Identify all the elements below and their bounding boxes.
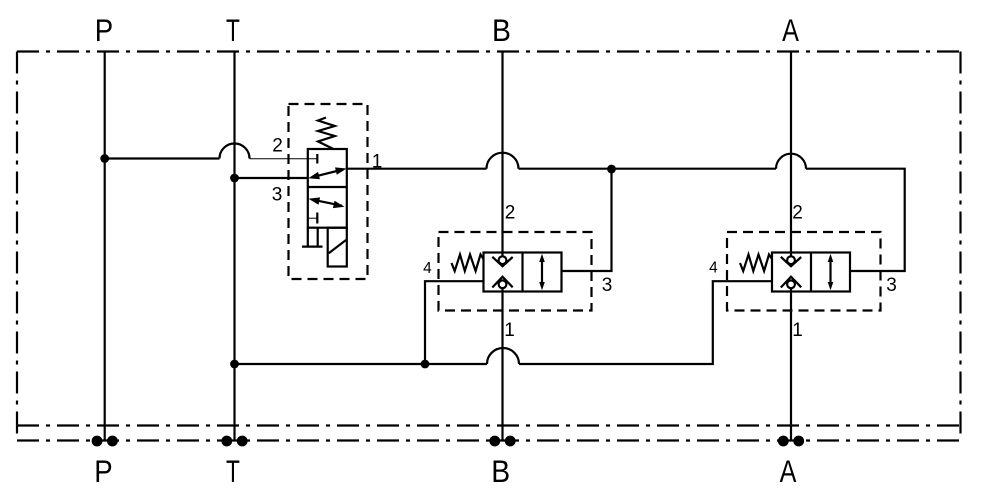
check block CB1 body divider bbox=[521, 253, 523, 292]
svg-text:B: B bbox=[491, 453, 510, 489]
wire crossover hump over T bbox=[220, 144, 250, 159]
junction T bottom wire bbox=[230, 360, 239, 369]
valve V1 pos1 flow path shaft bbox=[312, 170, 343, 178]
junction P top wire bbox=[100, 154, 109, 163]
check block CB1 bottom poppet seat bbox=[492, 277, 512, 288]
valve V1 pos1 arrowhead left bbox=[308, 172, 320, 179]
manifold boundary right edge bbox=[959, 52, 961, 441]
svg-text:2: 2 bbox=[792, 203, 803, 224]
wire left block pilot riser bbox=[425, 281, 484, 364]
wire T line vertical bbox=[233, 52, 235, 442]
svg-text:2: 2 bbox=[505, 203, 516, 224]
valve V1 drain bracket right prong bbox=[317, 228, 319, 246]
check block CB1 flow arrow shaft bbox=[541, 259, 543, 286]
valve V1 pos2 blocked line bbox=[308, 217, 317, 219]
wire crossover hump over B bbox=[487, 153, 519, 169]
svg-text:T: T bbox=[226, 12, 240, 48]
manifold boundary top edge bbox=[17, 50, 961, 52]
manifold boundary bottom inner edge bbox=[17, 424, 961, 426]
check block CB2 body divider bbox=[810, 253, 812, 292]
wire valve port 1 run bbox=[347, 168, 487, 170]
port P bottom terminal dots bbox=[92, 436, 103, 447]
svg-text:2: 2 bbox=[272, 136, 283, 157]
check block CB2 flow arrowhead up bbox=[828, 254, 834, 262]
manifold boundary left edge bbox=[16, 52, 18, 441]
port T bottom terminal dots bbox=[221, 436, 232, 447]
wire port 1 run continues bbox=[519, 168, 777, 170]
port A bottom terminal dots bbox=[778, 436, 789, 447]
valve V1 pos2 block bar bbox=[316, 213, 318, 224]
check block CB1 body bbox=[484, 253, 562, 292]
svg-text:P: P bbox=[94, 453, 112, 489]
svg-text:3: 3 bbox=[886, 275, 897, 296]
svg-text:A: A bbox=[780, 453, 797, 489]
valve V1 pos2 flow path shaft bbox=[312, 200, 342, 206]
valve V1 pos2 arrowhead left bbox=[309, 197, 321, 204]
wire B line vertical upper bbox=[501, 52, 503, 257]
manifold boundary bottom outer edge bbox=[17, 439, 961, 441]
junction pilot riser bottom wire bbox=[421, 360, 430, 369]
wire B line vertical lower bbox=[501, 288, 503, 441]
wire crossover hump over A bbox=[776, 154, 806, 169]
valve V1 solenoid diagonal bbox=[329, 240, 346, 253]
check block CB2 bottom poppet ball bbox=[787, 280, 795, 288]
check block CB1 flow arrowhead up bbox=[539, 254, 545, 262]
valve V1 port 2 block bar bbox=[316, 154, 318, 164]
wire port 1 run to right corner bbox=[806, 169, 905, 271]
check block CB2 spring bbox=[740, 255, 772, 272]
check block CB2 flow arrowhead down bbox=[828, 282, 834, 290]
check block CB2 body bbox=[772, 253, 850, 292]
wire port 2 thin segment bbox=[250, 158, 318, 160]
junction port1 run and CB1 port 3 bbox=[607, 165, 616, 174]
svg-text:3: 3 bbox=[272, 185, 283, 206]
check block CB1 enclosure bbox=[439, 232, 592, 311]
svg-text:1: 1 bbox=[792, 320, 803, 341]
wire left block port 3 bbox=[562, 170, 612, 271]
svg-text:1: 1 bbox=[504, 320, 515, 341]
svg-text:P: P bbox=[95, 12, 113, 48]
svg-text:B: B bbox=[492, 12, 511, 48]
svg-text:1: 1 bbox=[372, 152, 383, 173]
check block CB1 spring bbox=[452, 255, 484, 272]
check block CB2 flow arrow shaft bbox=[829, 259, 831, 286]
valve V1 drain bracket foot bbox=[302, 246, 323, 248]
valve V1 enclosure bbox=[289, 104, 368, 279]
check block CB2 top poppet seat bbox=[781, 257, 801, 266]
wire A line vertical lower bbox=[790, 288, 792, 441]
check block CB2 bottom poppet seat bbox=[781, 277, 801, 288]
check block CB1 bottom poppet ball bbox=[499, 280, 507, 288]
valve V1 body bbox=[308, 149, 347, 228]
wire crossover hump over B bottom bbox=[487, 348, 519, 364]
check block CB1 top poppet ball bbox=[499, 256, 507, 264]
wire P line vertical bbox=[104, 52, 106, 442]
valve V1 drain bracket left prong bbox=[307, 228, 309, 246]
check block CB2 top poppet ball bbox=[787, 256, 795, 264]
valve V1 spring bbox=[318, 118, 335, 149]
valve V1 pos1 arrowhead right bbox=[335, 167, 347, 174]
valve V1 position divider bbox=[308, 186, 347, 188]
junction T port 3 wire bbox=[230, 174, 239, 183]
svg-text:T: T bbox=[226, 453, 240, 489]
svg-text:3: 3 bbox=[602, 275, 613, 296]
check block CB1 top poppet seat bbox=[492, 257, 512, 266]
svg-text:A: A bbox=[782, 12, 799, 48]
check block CB1 flow arrowhead down bbox=[539, 282, 545, 290]
svg-text:4: 4 bbox=[709, 260, 718, 277]
valve V1 solenoid box bbox=[328, 228, 347, 267]
valve V1 pos2 arrowhead right bbox=[333, 201, 345, 208]
wire A line vertical upper bbox=[790, 52, 792, 257]
wire T to valve port 3 bbox=[235, 177, 308, 179]
svg-text:4: 4 bbox=[423, 260, 432, 277]
check block CB2 enclosure bbox=[727, 232, 881, 311]
port B bottom terminal dots bbox=[489, 436, 500, 447]
wire P to valve port 2 bbox=[105, 157, 220, 159]
wire bottom pilot run from T bbox=[235, 363, 488, 365]
wire bottom pilot run to right block bbox=[519, 281, 772, 364]
